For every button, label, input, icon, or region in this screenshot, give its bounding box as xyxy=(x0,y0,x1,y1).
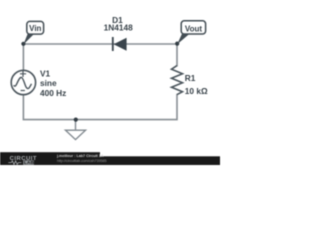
svg-text:V1: V1 xyxy=(40,68,51,78)
svg-text:http://circuitlab.com/csh73958: http://circuitlab.com/csh739585 xyxy=(57,159,107,163)
svg-text:400 Hz: 400 Hz xyxy=(40,88,66,98)
svg-text:sine: sine xyxy=(40,78,57,88)
svg-text:10 kΩ: 10 kΩ xyxy=(185,86,208,96)
svg-text:Vout: Vout xyxy=(185,24,203,33)
svg-text:LAB: LAB xyxy=(24,160,35,165)
svg-text:Vin: Vin xyxy=(29,24,41,33)
svg-text:j.meilleur : Lab7 Circuit 1A: j.meilleur : Lab7 Circuit 1A xyxy=(56,154,104,158)
svg-text:R1: R1 xyxy=(185,73,196,83)
svg-text:1N4148: 1N4148 xyxy=(104,23,133,33)
